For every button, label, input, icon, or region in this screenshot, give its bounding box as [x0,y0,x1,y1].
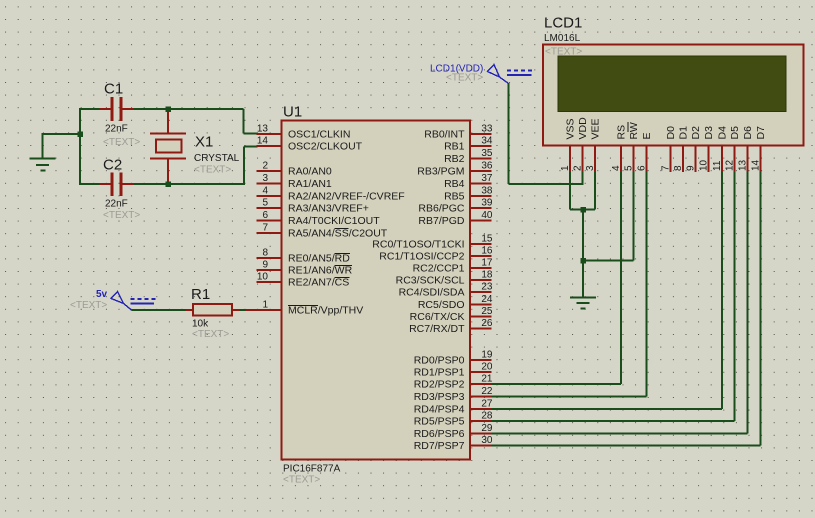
svg-text:30: 30 [481,435,493,446]
svg-text:2: 2 [573,165,584,171]
svg-text:RD5/PSP5: RD5/PSP5 [414,416,465,428]
svg-text:D7: D7 [755,126,767,140]
LCD1 pin 6 (E) [637,132,654,172]
svg-text:RS: RS [616,125,628,140]
svg-text:1: 1 [262,300,268,311]
svg-text:PIC16F877A: PIC16F877A [283,464,341,475]
ground [30,134,56,171]
LCD1 pin 5 (RW) [624,122,641,172]
svg-text:OSC1/CLKIN: OSC1/CLKIN [288,129,350,141]
svg-text:D3: D3 [703,126,715,140]
U1 pin 16 (RC1/T1OSI/CCP2) [379,246,493,263]
LCD1 pin 1 (VSS) [560,118,577,172]
svg-text:6: 6 [262,210,268,221]
svg-text:<TEXT>: <TEXT> [70,300,107,311]
svg-text:RA4/T0CKI/C1OUT: RA4/T0CKI/C1OUT [288,215,380,227]
svg-text:RE1/AN6/WR: RE1/AN6/WR [288,265,353,277]
wire LCD pin 3 (VEE) to ground node [583,172,595,210]
svg-text:RC7/RX/DT: RC7/RX/DT [409,323,465,335]
svg-text:15: 15 [481,234,493,245]
wire D6 net horizontal [492,432,748,434]
U1 pin 27 (RD4/PSP4) [414,399,493,416]
U1 pin 29 (RD6/PSP6) [414,423,493,440]
svg-text:4: 4 [611,165,622,171]
svg-text:11: 11 [712,160,723,171]
U1 pin 26 (RC7/RX/DT) [409,318,493,335]
U1 pin 18 (RC3/SCK/SCL) [396,270,493,287]
LCD LCD1 body [543,45,804,146]
svg-text:<TEXT>: <TEXT> [194,165,231,176]
svg-text:<TEXT>: <TEXT> [446,73,483,84]
wire OSC1 to pin 13 [244,109,258,134]
svg-text:D4: D4 [717,126,729,140]
U1 pin 2 (RA0/AN0) [257,161,332,178]
svg-text:RD3/PSP3: RD3/PSP3 [414,391,465,403]
U1 pin 19 (RD0/PSP0) [414,350,493,367]
wire ground chain vertical [582,210,584,261]
capacitor C2 [99,173,134,197]
svg-text:8: 8 [262,248,268,259]
LCD1 pin 11 (D4) [712,126,729,172]
svg-text:19: 19 [481,350,493,361]
svg-text:27: 27 [481,399,493,410]
LCD1 pin 14 (D7) [751,126,768,172]
svg-text:RD4/PSP4: RD4/PSP4 [414,404,465,416]
LCD1 pin 7 (D0) [661,126,678,172]
U1 pin 38 (RB5) [444,186,493,203]
wire RS net vertical [620,172,622,384]
svg-text:OSC2/CLKOUT: OSC2/CLKOUT [288,141,363,153]
U1 pin 4 (RA2/AN2/VREF-/CVREF) [257,186,405,203]
svg-text:7: 7 [262,223,268,234]
svg-text:6: 6 [637,165,648,171]
U1 pin 24 (RC5/SDO) [418,294,493,311]
U1 pin 39 (RB6/PGC) [418,198,493,215]
wire D7 net horizontal [492,444,761,446]
LCD1 pin 13 (D6) [738,126,755,172]
svg-text:RD6/PSP6: RD6/PSP6 [414,428,465,440]
svg-text:10k: 10k [192,319,209,330]
wire D4 net vertical [721,172,723,409]
svg-text:D2: D2 [690,126,702,140]
crystal X1 [150,110,186,183]
svg-text:RB6/PGC: RB6/PGC [418,203,465,215]
svg-text:D6: D6 [742,126,754,140]
svg-text:MCLR/Vpp/THV: MCLR/Vpp/THV [288,305,363,317]
junction VSS-VEE node [580,207,586,213]
svg-text:RB0/INT: RB0/INT [424,129,465,141]
LCD1 pin 9 (D2) [686,126,703,172]
wire D4 net horizontal [492,408,723,410]
wire LCD pin 5 (RW) drop [632,172,634,261]
svg-text:22nF: 22nF [105,124,128,135]
svg-text:33: 33 [481,124,493,135]
svg-text:RD2/PSP2: RD2/PSP2 [414,379,465,391]
U1 pin 6 (RA4/T0CKI/C1OUT) [257,210,381,227]
svg-text:28: 28 [481,411,493,422]
svg-text:13: 13 [738,159,749,171]
svg-text:RC5/SDO: RC5/SDO [418,299,465,311]
svg-text:5: 5 [624,165,635,171]
svg-text:RE2/AN7/CS: RE2/AN7/CS [288,277,349,289]
svg-text:D5: D5 [729,126,741,140]
junction RW node [580,258,586,264]
U1 pin 37 (RB4) [444,173,493,190]
junction X1 bottom [165,181,171,187]
U1 pin 1 (MCLR/Vpp/THV) [246,300,364,317]
wire ground stem (LCD) [582,261,584,298]
U1 pin 35 (RB2) [444,148,493,165]
power terminal LCD1(VDD) [488,65,534,84]
svg-text:RC4/SDI/SDA: RC4/SDI/SDA [399,287,465,299]
wire VDD horizontal to LCD pin 2 [509,183,583,185]
svg-text:14: 14 [257,136,269,147]
wire RS net horizontal [492,383,622,385]
wire OSC2 to pin 14 [244,147,258,186]
svg-text:R1: R1 [191,286,210,303]
U1 pin 22 (RD3/PSP3) [414,386,493,403]
U1 pin 13 (OSC1/CLKIN) [257,124,351,141]
svg-text:VEE: VEE [590,118,602,139]
U1 pin 25 (RC6/TX/CK) [410,306,493,323]
LCD1 pin 4 (RS) [611,125,628,172]
wire 5v to R1 [132,309,187,311]
U1 pin 14 (OSC2/CLKOUT) [257,136,363,153]
svg-text:<TEXT>: <TEXT> [192,329,229,340]
svg-text:5v: 5v [96,289,108,300]
svg-text:26: 26 [481,318,493,329]
svg-text:2: 2 [262,161,268,172]
LCD screen [558,56,786,112]
wire R1 to pin 1 [240,309,247,311]
svg-text:21: 21 [481,374,493,385]
junction ground node [77,131,83,137]
U1 pin 30 (RD7/PSP7) [414,435,493,452]
svg-text:RC2/CCP1: RC2/CCP1 [413,263,465,275]
U1 pin 7 (RA5/AN4/SS/C2OUT) [257,223,388,240]
U1 pin 8 (RE0/AN5/RD) [257,248,351,265]
svg-text:22nF: 22nF [105,199,128,210]
wire D5 net horizontal [492,420,735,422]
wire D5 net vertical [733,172,735,421]
svg-text:34: 34 [481,136,493,147]
ground (LCD) [570,298,596,309]
wire LCD pin 1 (VSS) to ground node [570,172,583,210]
svg-text:RA1/AN1: RA1/AN1 [288,178,332,190]
svg-text:RD1/PSP1: RD1/PSP1 [414,367,465,379]
svg-text:9: 9 [262,260,268,271]
svg-text:C1: C1 [104,81,123,98]
U1 pin 5 (RA3/AN3/VREF+) [257,198,369,215]
svg-text:RB1: RB1 [444,141,465,153]
svg-text:7: 7 [661,165,672,171]
wire top horizontal OSC1 net [80,108,244,110]
svg-text:E: E [641,132,653,139]
wire D6 net vertical [746,172,748,434]
svg-text:12: 12 [725,159,736,171]
svg-text:<TEXT>: <TEXT> [103,137,140,148]
power terminal 5v [111,292,157,311]
wire E net vertical [645,172,647,397]
svg-text:3: 3 [262,173,268,184]
svg-text:RD7/PSP7: RD7/PSP7 [414,440,465,452]
resistor R1 [186,304,240,316]
LCD1 pin 12 (D5) [725,126,742,172]
svg-text:D0: D0 [665,126,677,140]
svg-text:23: 23 [481,282,493,293]
wire RW horizontal [583,259,634,261]
svg-text:RA2/AN2/VREF-/CVREF: RA2/AN2/VREF-/CVREF [288,191,405,203]
svg-text:4: 4 [262,186,268,197]
svg-text:8: 8 [673,165,684,171]
svg-text:<TEXT>: <TEXT> [103,210,140,221]
U1 pin 28 (RD5/PSP5) [414,411,493,428]
svg-text:VDD: VDD [577,117,589,140]
svg-text:<TEXT>: <TEXT> [545,47,582,58]
LCD1 pin 8 (D1) [673,126,690,172]
svg-text:RB4: RB4 [444,178,465,190]
U1 pin 34 (RB1) [444,136,493,153]
svg-text:5: 5 [262,198,268,209]
U1 pin 36 (RB3/PGM) [417,161,493,178]
svg-text:25: 25 [481,306,493,317]
svg-text:LCD1: LCD1 [544,15,582,32]
svg-text:D1: D1 [678,126,690,140]
U1 pin 33 (RB0/INT) [424,124,493,141]
LCD1 pin 10 (D3) [699,126,716,172]
svg-text:18: 18 [481,270,493,281]
svg-text:20: 20 [481,362,493,373]
svg-text:22: 22 [481,386,493,397]
svg-text:RC6/TX/CK: RC6/TX/CK [410,311,465,323]
LCD1 pin 3 (VEE) [585,118,602,172]
svg-text:RA0/AN0: RA0/AN0 [288,166,332,178]
junction X1 top [165,106,171,112]
wire E net horizontal [492,395,647,397]
svg-text:RC1/T1OSI/CCP2: RC1/T1OSI/CCP2 [379,251,464,263]
svg-text:RD0/PSP0: RD0/PSP0 [414,355,465,367]
wire LCD pin 2 drop [581,172,583,185]
svg-text:CRYSTAL: CRYSTAL [194,153,240,164]
svg-text:17: 17 [481,258,493,269]
svg-text:38: 38 [481,186,493,197]
svg-text:RB2: RB2 [444,153,465,165]
LCD1 pin 2 (VDD) [573,117,590,172]
svg-text:C2: C2 [103,157,122,174]
svg-text:36: 36 [481,161,493,172]
capacitor C1 [99,97,134,121]
U1 pin 10 (RE2/AN7/CS) [257,272,350,289]
svg-text:<TEXT>: <TEXT> [283,475,320,486]
svg-text:14: 14 [751,159,762,171]
U1 pin 21 (RD2/PSP2) [414,374,493,391]
U1 pin 40 (RB7/PGD) [418,210,493,227]
wire D7 net vertical [759,172,761,446]
U1 pin 9 (RE1/AN6/WR) [257,260,353,277]
svg-text:16: 16 [481,246,493,257]
svg-text:RB7/PGD: RB7/PGD [418,215,465,227]
U1 pin 17 (RC2/CCP1) [413,258,493,275]
wire bottom horizontal OSC2 net [80,183,244,185]
svg-text:29: 29 [481,423,493,434]
wire ground to node [42,133,81,135]
svg-text:39: 39 [481,198,493,209]
U1 pin 20 (RD1/PSP1) [414,362,493,379]
svg-text:RC3/SCK/SCL: RC3/SCK/SCL [396,275,465,287]
svg-text:RW: RW [628,122,640,139]
svg-text:RE0/AN5/RD: RE0/AN5/RD [288,253,350,265]
svg-text:RB5: RB5 [444,191,465,203]
U1 pin 23 (RC4/SDI/SDA) [399,282,493,299]
svg-text:9: 9 [686,165,697,171]
svg-text:RC0/T1OSO/T1CKI: RC0/T1OSO/T1CKI [372,239,464,251]
wire left vertical C1-C2 [79,108,81,185]
svg-text:1: 1 [560,165,571,171]
svg-text:40: 40 [481,210,493,221]
svg-text:RA3/AN3/VREF+: RA3/AN3/VREF+ [288,203,369,215]
svg-text:RB3/PGM: RB3/PGM [417,166,464,178]
wire VDD vertical [507,83,509,184]
U1 pin 3 (RA1/AN1) [257,173,332,190]
svg-text:24: 24 [481,294,493,305]
U1 pin 15 (RC0/T1OSO/T1CKI) [372,234,493,251]
svg-text:10: 10 [699,159,710,171]
svg-text:U1: U1 [283,104,302,121]
svg-text:LM016L: LM016L [544,33,581,44]
svg-text:37: 37 [481,173,493,184]
svg-text:13: 13 [257,124,269,135]
svg-text:VSS: VSS [565,118,577,139]
svg-text:3: 3 [585,165,596,171]
svg-text:X1: X1 [195,134,213,151]
svg-text:10: 10 [257,272,269,283]
svg-text:35: 35 [481,148,493,159]
IC U1 PIC16F877A body [282,121,471,460]
